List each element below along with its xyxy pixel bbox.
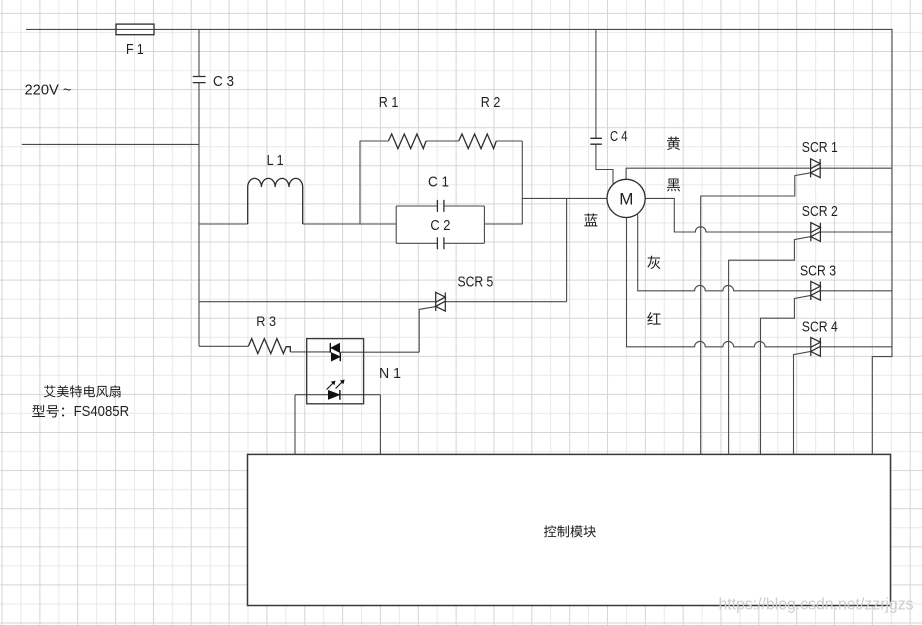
svg-text:C 3: C 3 [213, 74, 234, 90]
svg-text:R 1: R 1 [379, 95, 399, 111]
svg-text:F 1: F 1 [126, 42, 144, 58]
svg-text:C 1: C 1 [428, 174, 449, 190]
svg-text:C 2: C 2 [430, 218, 450, 234]
svg-text:SCR 1: SCR 1 [802, 140, 838, 156]
svg-text:N 1: N 1 [379, 366, 401, 382]
svg-text:R 3: R 3 [256, 313, 276, 329]
svg-text:M: M [619, 190, 633, 209]
svg-text:SCR 5: SCR 5 [458, 274, 494, 290]
svg-text:C 4: C 4 [610, 129, 628, 145]
svg-text:R 2: R 2 [481, 95, 501, 111]
svg-text:220V ~: 220V ~ [25, 82, 72, 98]
svg-text:https://blog.csdn.net/zzrjgzs: https://blog.csdn.net/zzrjgzs [719, 596, 914, 614]
svg-text:SCR 2: SCR 2 [802, 204, 838, 220]
svg-text:SCR 4: SCR 4 [802, 320, 838, 336]
svg-text:FS4085R: FS4085R [74, 403, 130, 420]
svg-text:SCR 3: SCR 3 [800, 264, 836, 280]
svg-text:L 1: L 1 [267, 153, 284, 169]
